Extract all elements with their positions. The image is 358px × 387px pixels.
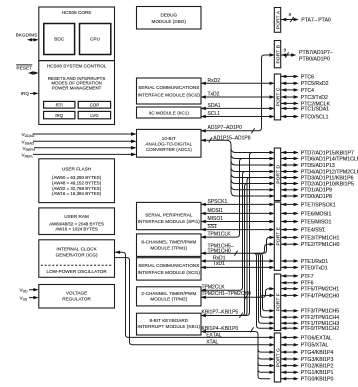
pin PTD4/AD1P12/TPM2CLK [281,169,358,175]
svg-text:BDC: BDC [54,37,64,42]
svg-text:(AW32 = 32,768 BYTES): (AW32 = 32,768 BYTES) [52,186,102,191]
svg-text:KBI1P4–KBI1P0: KBI1P4–KBI1P0 [202,326,239,332]
svg-text:PTC4: PTC4 [301,88,314,94]
pin PTE4/SS1 [281,228,325,234]
svg-text:PTG4/KBI1P4: PTG4/KBI1P4 [301,350,334,356]
svg-text:PTG5/XTAL: PTG5/XTAL [301,343,329,349]
svg-text:PTG2/KBI1P2: PTG2/KBI1P2 [301,364,334,370]
port E box [274,202,281,270]
svg-text:PTG0/KBI1P0: PTG0/KBI1P0 [301,377,334,383]
pin PTD7/AD1P15/KBI1P7 [281,150,354,156]
svg-text:VOLTAGE: VOLTAGE [66,291,87,296]
svg-text:PTE7/SPSCK1: PTE7/SPSCK1 [301,202,336,208]
pin BKGD/MS with bidirectional arrow [16,32,39,41]
svg-text:PTF0/TPM1CH2: PTF0/TPM1CH2 [301,326,339,332]
wire bus KBI1P7-KBI1P5 from KBI1 up to port D rows [201,153,253,318]
svg-text:PTE6/MOSI1: PTE6/MOSI1 [301,211,332,217]
svg-text:PTC0/SCL1: PTC0/SCL1 [301,114,329,120]
pin PTG0/KBI1P0 [281,377,334,383]
svg-text:TPM1CLK: TPM1CLK [208,232,232,238]
pin PTE2/TPM1CH0 [281,242,340,248]
svg-text:TxD2: TxD2 [208,92,220,98]
pin PTF2/TPM1CH4 [281,315,340,321]
module TPM2: 2-CHANNEL TIMER/PWM MODULE [137,287,202,306]
svg-text:TPM2CH1–TPM2CH0: TPM2CH1–TPM2CH0 [202,291,252,297]
svg-text:BKGD/MS: BKGD/MS [16,32,38,37]
svg-text:PTA7– PTA0: PTA7– PTA0 [301,17,331,23]
module SPI1: SERIAL PERIPHERAL INTERFACE MODULE [137,202,202,229]
COP block [78,101,110,108]
svg-text:MODULE (DBG): MODULE (DBG) [152,19,187,24]
svg-text:TPM2CLK: TPM2CLK [202,284,226,290]
pin PTC2/MCLK [281,101,331,107]
pin PTD5/AD1P13 [281,163,335,169]
module IIC1: IIC MODULE [137,107,202,118]
svg-text:PTE4/SS1: PTE4/SS1 [301,228,325,234]
VOLTAGE REGULATOR box [39,285,115,309]
pin VSS with arrow into voltage regulator [20,296,39,302]
pin VSSAD rail to ADC [22,140,137,146]
svg-text:MODULE (TPM1): MODULE (TPM1) [150,246,187,251]
svg-text:DEBUG: DEBUG [161,13,178,18]
pin PTE6/MOSI1 [281,211,332,217]
pin PTF6 [281,281,314,287]
pin PTF4/TPM2CH0 [281,293,340,299]
wire bus TPM2CH1-TPM2CH0 from TPM2 up to PTF5/PTF4 [201,289,271,300]
svg-text:RESET: RESET [16,66,32,71]
svg-text:PTC3/TxD2: PTC3/TxD2 [301,95,328,101]
svg-text:SPSCK1: SPSCK1 [208,199,228,205]
module SCI1: SERIAL COMMUNICATIONS INTERFACE MODULE [137,258,202,280]
svg-text:SERIAL COMMUNICATIONS: SERIAL COMMUNICATIONS [138,263,199,268]
LVD block [78,111,110,118]
wire AD1P7-AD1P0 from ADC up to port B [201,53,275,133]
svg-text:PTE5/MISO1: PTE5/MISO1 [301,219,332,225]
pin PTC3/TxD2 [281,95,328,101]
port B box [274,41,281,68]
svg-text:(AW16 = 16,384 BYTES): (AW16 = 16,384 BYTES) [52,191,102,196]
RTI block [44,101,75,108]
pin PTD2/AD1P10/KBI1P5 [281,181,354,187]
wire SDA1 from IIC1 to port C [201,103,275,110]
svg-text:LVD: LVD [90,113,98,118]
pin PTD3/AD1P11/KBI1P6 [281,175,354,181]
pin PTG5/XTAL [281,343,329,349]
pin PTA7-PTA0 bus stub [281,12,331,23]
svg-text:PTD6/AD1P14/TPM1CLK: PTD6/AD1P14/TPM1CLK [301,156,358,162]
svg-text:TxD1: TxD1 [213,261,225,267]
svg-text:AD1P7–AD1P0: AD1P7–AD1P0 [208,125,243,131]
pin RESET (active-low) with bidirectional arrow [16,65,38,75]
wire EXTAL from ICG to PTG6 row [115,251,275,340]
svg-text:MISO1: MISO1 [208,216,224,222]
svg-text:PTB0/AD1P0: PTB0/AD1P0 [299,56,330,62]
pin PTG6/EXTAL [281,335,332,341]
wire TxD2 from SCI2 to port C [201,92,275,99]
wire MISO1 from SPI1 to port E [201,216,275,223]
pin PTG4/KBI1P4 [281,350,334,356]
svg-text:SDA1: SDA1 [208,103,221,109]
wire TxD1 from SCI1 to port E [201,261,275,269]
wire bus KBI1P4-KBI1P0 from KBI1 down to port G rows [201,326,271,379]
port D box [274,148,281,201]
pin PTD0/AD1P8 [281,194,332,200]
pin PTC4 [281,88,314,94]
port A box [274,8,281,33]
svg-text:MOSI1: MOSI1 [208,208,224,214]
HCS08 CORE box [39,7,115,61]
pin PTD6/AD1P14/TPM1CLK [281,156,358,162]
svg-text:XTAL: XTAL [206,340,218,346]
pin PTE5/MISO1 [281,219,332,225]
svg-text:CPU: CPU [90,37,100,42]
svg-text:PTD0/AD1P8: PTD0/AD1P8 [301,194,332,200]
svg-text:PORT D: PORT D [275,164,281,183]
wire bus TPM1CH5-TPM1CH0 from TPM1 to ports E/F [201,237,271,328]
svg-text:REGULATOR: REGULATOR [62,296,91,301]
wire SS1 (active-low) from SPI1 to port E [201,224,275,231]
svg-text:SERIAL PERIPHERAL: SERIAL PERIPHERAL [145,212,193,217]
svg-text:USER RAM: USER RAM [64,214,89,219]
wires port D pin rows from AD trunk [231,148,275,198]
wire MOSI1 from SPI1 to port E [201,208,275,215]
svg-text:HCS08 CORE: HCS08 CORE [62,10,92,15]
pin PTF0/TPM1CH2 [281,326,340,332]
svg-text:PTG1/KBI1P1: PTG1/KBI1P1 [301,370,334,376]
IRQ block [44,111,75,118]
svg-text:POWER MANAGEMENT: POWER MANAGEMENT [52,86,102,91]
svg-text:INTERFACE MODULE (SPI1): INTERFACE MODULE (SPI1) [138,219,201,224]
wire SCL1 from IIC1 to port C [201,111,275,118]
pin VDD with arrow into voltage regulator [20,288,39,294]
svg-text:8-CHANNEL TIMER/PWM: 8-CHANNEL TIMER/PWM [141,240,196,245]
svg-text:IRQ: IRQ [55,113,63,118]
svg-text:PTF3/TPM1CH5: PTF3/TPM1CH5 [301,309,339,315]
pin PTE0/TxD1 [281,265,328,271]
svg-text:INTERRUPT MODULE (KBI1): INTERRUPT MODULE (KBI1) [138,324,201,329]
pin PTE3/TPM1CH1 [281,235,340,241]
wire TPM2CLK from TPM2 up to PTD4 row [201,172,246,292]
svg-text:PTD1/AD1P9: PTD1/AD1P9 [301,188,332,194]
svg-text:PTC6: PTC6 [301,74,314,80]
pin VREFL rail to ADC [22,153,137,159]
svg-text:USER FLASH: USER FLASH [62,167,91,172]
svg-text:CONVERTER (ADC1): CONVERTER (ADC1) [146,147,193,152]
module SCI2: SERIAL COMMUNICATIONS INTERFACE MODULE [137,78,202,104]
pin VDDAD rail to ADC [22,132,137,138]
svg-text:IRQ: IRQ [21,91,30,96]
svg-text:PORT F: PORT F [275,293,281,311]
port C box [274,74,281,120]
arrows into ADC left edge from supply rails [131,132,136,156]
CPU block [80,24,111,55]
svg-text:PORT A: PORT A [275,10,281,29]
pin PTF5/TPM2CH1 [281,287,340,293]
svg-text:COP: COP [90,103,100,108]
svg-text:PTE2/TPM1CH0: PTE2/TPM1CH0 [301,242,340,248]
svg-text:KBI1P7–KBI1P5: KBI1P7–KBI1P5 [202,310,239,316]
svg-text:HCS08 SYSTEM CONTROL: HCS08 SYSTEM CONTROL [47,64,107,69]
pin PTF1/TPM1CH3 [281,321,340,327]
svg-text:PTC5/RxD2: PTC5/RxD2 [301,81,329,87]
INTERNAL CLOCK GENERATOR (ICG) box [39,240,115,277]
pin PTB7/AD1P7-PTB0/AD1P0 bus stub [281,47,333,62]
module KBI1: 8-BIT KEYBOARD INTERRUPT MODULE [137,313,202,335]
pin PTG1/KBI1P1 [281,370,334,376]
svg-text:TPM1CH0: TPM1CH0 [208,248,232,254]
svg-text:PTF4/TPM2CH0: PTF4/TPM2CH0 [301,293,339,299]
pin VREFH rail to ADC [23,146,137,152]
svg-text:MODULE (TPM2): MODULE (TPM2) [150,297,187,302]
pin IRQ with arrow into system control [21,91,39,96]
svg-text:AD1P15–AD1P8: AD1P15–AD1P8 [213,135,250,141]
svg-text:PTB7/AD1P7–: PTB7/AD1P7– [299,50,333,56]
module TPM1: 8-CHANNEL TIMER/PWM MODULE [137,234,202,257]
USER FLASH box [39,159,115,203]
pin PTG2/KBI1P2 [281,364,334,370]
svg-text:SCL1: SCL1 [208,111,221,117]
pin PTC5/RxD2 [281,81,329,87]
svg-text:INTERFACE MODULE (SCI1): INTERFACE MODULE (SCI1) [138,270,201,275]
svg-text:PTD2/AD1P10/KBI1P5: PTD2/AD1P10/KBI1P5 [301,181,354,187]
svg-text:INTERNAL CLOCK: INTERNAL CLOCK [56,247,97,252]
wire RxD2 from SCI2 to port C [201,78,275,85]
svg-text:AW16 = 1024 BYTES: AW16 = 1024 BYTES [55,227,98,232]
svg-text:PTG6/EXTAL: PTG6/EXTAL [301,335,332,341]
svg-text:ANALOG-TO-DIGITAL: ANALOG-TO-DIGITAL [145,142,192,147]
HCS08 SYSTEM CONTROL box [39,61,115,125]
arrows into port C/E rows [270,236,275,374]
port G box [274,333,281,382]
pin PTE7/SPSCK1 [281,202,336,208]
svg-text:PTG3/KBI1P3: PTG3/KBI1P3 [301,357,334,363]
pin PTC1/SDA1 [281,106,329,112]
svg-text:PTE3/TPM1CH1: PTE3/TPM1CH1 [301,235,340,241]
svg-text:RxD2: RxD2 [208,78,221,84]
wire TPM1CLK from TPM1 up to PTD6 row [201,159,243,239]
svg-text:(AW48 = 49,152 BYTES): (AW48 = 49,152 BYTES) [52,181,102,186]
svg-text:2-CHANNEL TIMER/PWM: 2-CHANNEL TIMER/PWM [141,291,196,296]
wire RxD1 from SCI1 to port E [201,256,275,263]
pin PTC6 [281,74,314,80]
svg-text:INTERFACE MODULE (SCI2): INTERFACE MODULE (SCI2) [138,92,201,97]
module ADC1: 10-BIT ANALOG-TO-DIGITAL CONVERTER [137,129,202,157]
wire XTAL from ICG to PTG5 row [115,258,275,347]
svg-text:10-BIT: 10-BIT [162,136,176,141]
pin PTG3/KBI1P3 [281,357,334,363]
pin PTE1/RxD1 [281,259,329,265]
svg-text:PTE1/RxD1: PTE1/RxD1 [301,259,329,265]
pin PTC0/SCL1 [281,114,329,120]
port F box [274,274,281,331]
svg-text:GENERATOR (ICG): GENERATOR (ICG) [56,252,98,257]
svg-text:PTD5/AD1P13: PTD5/AD1P13 [301,163,335,169]
svg-text:SS1: SS1 [208,224,218,230]
svg-text:AW60/48/32 = 2048 BYTES: AW60/48/32 = 2048 BYTES [49,221,104,226]
svg-text:PTF7: PTF7 [301,274,314,280]
svg-text:PORT G: PORT G [275,348,281,367]
svg-text:PORT E: PORT E [275,227,281,246]
USER RAM box [39,208,115,235]
svg-text:(AW60 = 63,280 BYTES): (AW60 = 63,280 BYTES) [52,175,102,180]
pin PTD1/AD1P9 [281,188,332,194]
svg-text:SERIAL COMMUNICATIONS: SERIAL COMMUNICATIONS [138,85,199,90]
svg-text:PTC1/SDA1: PTC1/SDA1 [301,106,329,112]
svg-text:PORT B: PORT B [275,45,281,64]
svg-text:PORT C: PORT C [275,87,281,106]
wire bus AD1P15-AD1P8 from ADC to port D fan [201,135,251,196]
svg-text:RTI: RTI [56,103,63,108]
svg-text:8-BIT KEYBOARD: 8-BIT KEYBOARD [149,318,188,323]
svg-text:PTF5/TPM2CH1: PTF5/TPM2CH1 [301,287,339,293]
svg-text:IIC MODULE (IIC1): IIC MODULE (IIC1) [149,110,190,115]
wire SPSCK1 from SPI1 to port E [201,199,275,206]
BDC block [44,24,75,55]
svg-text:PTE0/TxD1: PTE0/TxD1 [301,265,328,271]
pin PTF3/TPM1CH5 [281,309,340,315]
svg-text:LOW-POWER OSCILLATOR: LOW-POWER OSCILLATOR [46,269,107,274]
module DBG: DEBUG MODULE [137,7,202,30]
pin PTF7 [281,274,314,280]
svg-text:EXTAL: EXTAL [206,333,222,339]
